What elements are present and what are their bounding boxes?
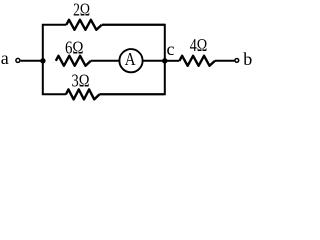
svg-text:4Ω: 4Ω [190,35,208,55]
wire ammeter to node c [143,60,165,62]
node junction left [40,58,45,63]
svg-text:A: A [125,49,136,69]
resistor 3Ω [66,89,100,99]
wire node c to 4Ω [165,60,180,62]
ammeter A [119,49,142,72]
wire 3Ω to right bus bottom [99,93,163,95]
resistor 2Ω [66,20,102,30]
wire 4Ω to terminal b [215,60,234,62]
svg-text:6Ω: 6Ω [65,37,84,57]
svg-text:a: a [1,48,9,68]
left bus wire with top and bottom corners [43,25,67,95]
right bus wire with corners [99,25,164,95]
svg-text:3Ω: 3Ω [72,70,90,90]
svg-text:2Ω: 2Ω [73,0,90,20]
wire 2Ω to right bus [102,24,165,26]
node c junction [162,58,167,63]
resistor 4Ω [179,56,215,66]
terminal a [16,58,20,62]
svg-text:c: c [167,39,175,59]
resistor 6Ω [56,56,91,66]
wire a to left junction [21,60,43,62]
svg-text:b: b [243,49,252,69]
terminal b [235,59,239,63]
wire 6Ω to ammeter [91,60,119,62]
